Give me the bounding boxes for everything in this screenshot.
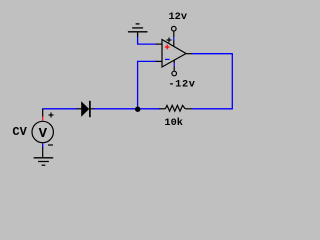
- op-amp U1 V+ pin to edge: [173, 41, 175, 47]
- svg-text:CV: CV: [12, 125, 27, 139]
- resistor R1 zigzag: [165, 105, 185, 111]
- wire source to diode: [42, 108, 77, 110]
- op-amp U1 output pin lead: [186, 53, 193, 55]
- diode D1 triangle: [81, 101, 89, 117]
- source V1 plus sign: [49, 113, 54, 118]
- source V1 red + terminal mark: [42, 117, 44, 121]
- ground GND2 stem: [42, 147, 44, 158]
- wire output net top: [192, 53, 233, 55]
- source V1 minus sign: [48, 144, 53, 146]
- source V1 circle: [32, 121, 53, 142]
- source V1 top pin stub: [42, 109, 44, 117]
- op-amp U1 V+ power pin stub: [173, 31, 175, 37]
- terminal -12v circle: [172, 71, 177, 76]
- op-amp U1 -input pin lead: [156, 60, 162, 62]
- diode D1 cathode bar: [89, 101, 91, 117]
- wire feedback net (node to -input): [138, 61, 157, 109]
- wire ground-stem to +input net: [137, 37, 157, 44]
- ground GND2 bars: [34, 158, 54, 165]
- op-amp U1 black + (V+ supply marker): [167, 38, 172, 43]
- op-amp U1 V- power pin stub: [173, 66, 175, 71]
- wire diode to node: [94, 108, 138, 110]
- ground GND1 (top, inverted, at op-amp +input): [128, 24, 148, 37]
- op-amp U1 +input pin lead: [156, 43, 162, 45]
- wire node to resistor: [138, 108, 160, 110]
- svg-text:V: V: [39, 126, 48, 142]
- svg-text:-12v: -12v: [168, 78, 195, 90]
- diode D1 anode lead: [77, 108, 82, 110]
- node junction dot: [135, 107, 140, 112]
- diode D1 cathode lead: [90, 108, 94, 110]
- op-amp U1 red + (noninverting marker): [165, 45, 170, 50]
- op-amp U1 triangle: [162, 40, 186, 68]
- wire output net right vertical: [231, 54, 233, 109]
- svg-text:10k: 10k: [164, 117, 183, 129]
- wire source bottom stub: [42, 143, 44, 147]
- op-amp U1 V- pin from edge: [173, 60, 175, 63]
- resistor R1 left lead: [159, 108, 165, 110]
- op-amp U1 blue - (inverting marker): [165, 58, 170, 60]
- wire V- stub: [173, 63, 175, 66]
- terminal +12v circle: [172, 26, 177, 31]
- wire output net bottom (to resistor): [192, 108, 233, 110]
- wire V+ stub: [173, 37, 175, 41]
- resistor R1 right lead: [185, 108, 192, 110]
- svg-text:12v: 12v: [169, 11, 188, 23]
